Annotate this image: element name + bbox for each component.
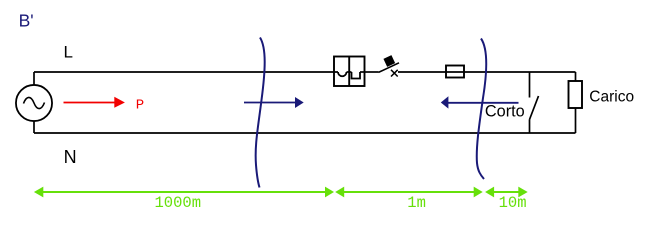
- svg-text:Carico: Carico: [589, 88, 634, 105]
- svg-text:10m: 10m: [499, 194, 527, 212]
- svg-text:Corto: Corto: [485, 102, 525, 120]
- svg-text:B': B': [19, 11, 34, 31]
- svg-text:N: N: [64, 147, 77, 167]
- svg-text:L: L: [64, 42, 73, 61]
- svg-text:1000m: 1000m: [155, 194, 202, 212]
- svg-text:1m: 1m: [407, 194, 426, 212]
- svg-text:P: P: [136, 98, 144, 114]
